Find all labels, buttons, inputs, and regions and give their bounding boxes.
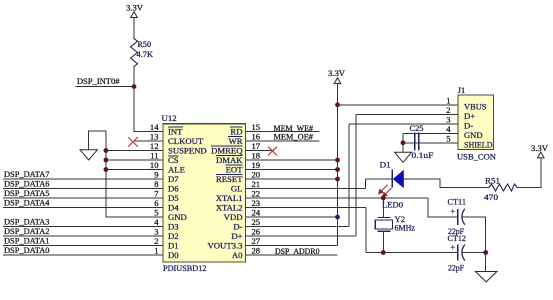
wire DSP_DATA7 <box>4 178 164 180</box>
svg-text:CLKOUT: CLKOUT <box>168 136 204 146</box>
svg-text:15: 15 <box>252 122 261 132</box>
junction pin 11 <box>104 158 109 163</box>
wire J1 D+ <box>356 113 458 115</box>
wire GND/SHIELD vertical <box>402 133 404 152</box>
svg-text:D3: D3 <box>168 222 179 232</box>
svg-text:D4: D4 <box>168 203 179 213</box>
svg-text:USB_CON: USB_CON <box>457 152 497 162</box>
wire 3.3V rail vertical <box>337 84 339 246</box>
svg-text:16: 16 <box>252 132 261 142</box>
junction DSP_INT0# node <box>132 84 137 89</box>
wire MEM_OE# (pin 16) <box>246 140 320 142</box>
pin 16 WR (right) <box>228 132 261 147</box>
wire pin 25 D- <box>246 226 350 228</box>
capacitor CT11 <box>448 197 467 237</box>
wire D- vertical <box>348 124 350 227</box>
pin 3 D- <box>446 115 473 131</box>
pin 9 D7 (left) <box>154 170 179 185</box>
svg-text:23: 23 <box>252 198 261 208</box>
pin 27 VOUT3.3 (right) <box>208 236 261 251</box>
svg-text:4: 4 <box>446 124 451 134</box>
svg-text:U12: U12 <box>162 113 177 123</box>
wire pin 28 A0 <box>246 254 338 256</box>
svg-text:D1: D1 <box>168 241 179 251</box>
svg-text:6MHz: 6MHz <box>395 223 416 233</box>
svg-text:4.7K: 4.7K <box>137 49 154 59</box>
svg-text:DSP_INT0#: DSP_INT0# <box>77 76 120 86</box>
pin 12 SUSPEND (left) <box>150 141 207 156</box>
wire DSP_DATA3 <box>4 226 164 228</box>
no-connect X on pin 17 <box>268 147 277 156</box>
power 3.3V (middle) <box>328 68 346 84</box>
svg-text:WR: WR <box>229 136 243 146</box>
pin 2 D+ <box>446 105 475 121</box>
pin 3 D2 (left) <box>154 227 178 242</box>
pin 2 D1 (left) <box>154 236 178 251</box>
pin 6 D4 (left) <box>154 198 179 213</box>
svg-text:25: 25 <box>252 217 261 227</box>
pin 22 XTAL1 (right) <box>216 189 260 204</box>
pin 5 GND (left) <box>154 208 187 223</box>
wire J1 D- <box>349 123 458 125</box>
wire DSP_DATA4 <box>4 207 164 209</box>
wire junction down to pin 14 <box>133 87 135 132</box>
pin 11 CS (left) <box>150 151 179 166</box>
junction pin 20 <box>335 177 340 182</box>
pin 21 GL (right) <box>231 179 260 194</box>
wire XTAL1 down to CT11 <box>428 198 458 217</box>
svg-text:DSP_DATA6: DSP_DATA6 <box>4 179 50 189</box>
LED D1 <box>379 160 404 197</box>
svg-text:RD: RD <box>230 127 242 137</box>
svg-text:3: 3 <box>154 227 158 237</box>
svg-text:D-: D- <box>233 222 242 232</box>
svg-text:11: 11 <box>150 151 158 161</box>
resistor R50 <box>131 39 154 67</box>
svg-text:C25: C25 <box>410 123 425 133</box>
wire MEM_WE# (pin 15) <box>246 131 320 133</box>
svg-text:1: 1 <box>446 96 450 106</box>
junction pin 10 <box>104 167 109 172</box>
svg-text:2: 2 <box>446 105 450 115</box>
wire pin 5 GND <box>106 216 163 218</box>
svg-text:10: 10 <box>150 160 159 170</box>
svg-text:PDIUSBD12: PDIUSBD12 <box>163 263 207 273</box>
svg-text:INT: INT <box>168 127 183 137</box>
capacitor C25 <box>410 123 434 160</box>
svg-text:6: 6 <box>154 198 159 208</box>
wire pin 26 D+ <box>246 235 357 237</box>
svg-text:D5: D5 <box>168 193 179 203</box>
wire pin 20 RESET to 3.3V rail <box>246 178 338 180</box>
wire D+ vertical <box>355 114 357 236</box>
wire R50 to junction <box>133 67 135 87</box>
pin 8 D6 (left) <box>154 179 179 194</box>
svg-text:17: 17 <box>252 141 261 151</box>
svg-text:+: + <box>451 207 456 216</box>
wire J1 GND <box>403 132 458 134</box>
svg-text:A0: A0 <box>232 250 243 260</box>
wire VBUS to J1 pin 1 <box>338 104 459 106</box>
pin 28 A0 (right) <box>232 246 260 261</box>
pin 18 DMAK (right) <box>216 151 260 166</box>
IC U12 PDIUSBD12 <box>162 113 246 273</box>
wire pin 18 DMAK to 3.3V rail <box>246 159 338 161</box>
svg-text:SUSPEND: SUSPEND <box>168 146 207 156</box>
junction VDD node <box>335 215 340 220</box>
svg-text:XTAL1: XTAL1 <box>216 193 243 203</box>
wire pin 24 VDD to rail <box>246 216 338 218</box>
wire pin 10 ALE <box>106 169 163 171</box>
svg-text:SHIELD: SHIELD <box>464 139 493 149</box>
pin 7 D5 (left) <box>154 189 178 204</box>
wire rail to pin 27 VOUT3.3 <box>246 245 338 247</box>
svg-text:4: 4 <box>154 217 159 227</box>
svg-text:CT11: CT11 <box>448 197 467 207</box>
wire pin 17 stub <box>246 150 275 152</box>
svg-text:8: 8 <box>154 179 158 189</box>
svg-text:ALE: ALE <box>168 165 185 175</box>
pin 26 D+ (right) <box>231 227 260 242</box>
svg-text:22: 22 <box>252 189 261 199</box>
pin 4 GND <box>446 124 482 140</box>
wire pin 19 EOT to 3.3V rail <box>246 169 338 171</box>
power 3.3V (right) <box>531 143 549 158</box>
pin 4 D3 (left) <box>154 217 178 232</box>
svg-text:D+: D+ <box>231 231 242 241</box>
svg-text:D0: D0 <box>168 250 179 260</box>
svg-text:3: 3 <box>446 115 450 125</box>
svg-text:12: 12 <box>150 141 159 151</box>
svg-text:DSP_DATA1: DSP_DATA1 <box>4 236 50 246</box>
svg-text:GND: GND <box>168 212 187 222</box>
svg-text:DSP_DATA7: DSP_DATA7 <box>4 169 50 179</box>
pin 19 EOT (right) <box>225 160 260 175</box>
svg-text:CT12: CT12 <box>448 233 467 243</box>
svg-text:DSP_DATA4: DSP_DATA4 <box>4 198 50 208</box>
junction XTAL1/crystal <box>381 196 386 201</box>
svg-text:D+: D+ <box>464 111 475 121</box>
ground (under C25) <box>395 152 412 162</box>
wire DSP_DATA1 <box>4 245 164 247</box>
pin 13 CLKOUT (left) <box>150 132 204 147</box>
pin 25 D- (right) <box>233 217 260 232</box>
svg-text:3.3V: 3.3V <box>531 143 549 153</box>
wire 3.3V to R50 <box>133 18 135 39</box>
wire DSP_INT0# <box>76 86 134 88</box>
svg-text:EOT: EOT <box>226 165 244 175</box>
no-connect X on pin 13 <box>129 138 138 147</box>
svg-text:J1: J1 <box>458 85 466 95</box>
svg-text:470: 470 <box>484 192 499 202</box>
svg-text:XTAL2: XTAL2 <box>216 203 243 213</box>
svg-text:R51: R51 <box>485 176 500 186</box>
svg-text:DMREQ: DMREQ <box>211 146 243 156</box>
wire CT11 to ground rail <box>462 217 486 253</box>
wire CT12 to ground node <box>462 252 486 254</box>
pin 1 D0 (left) <box>154 246 179 261</box>
svg-text:RESET: RESET <box>216 174 243 184</box>
svg-text:DSP_DATA3: DSP_DATA3 <box>4 217 50 227</box>
svg-text:5: 5 <box>154 208 158 218</box>
pin 24 VDD (right) <box>224 208 261 223</box>
power 3.3V (top left) <box>126 3 144 18</box>
wire pin 22 XTAL1 <box>246 197 429 199</box>
resistor R51 <box>484 176 517 203</box>
pin 1 VBUS <box>446 96 486 112</box>
wire LED anode lead <box>366 178 393 180</box>
svg-text:DMAK: DMAK <box>216 155 243 165</box>
wire LED cathode lead <box>403 179 489 188</box>
svg-text:19: 19 <box>252 160 261 170</box>
wire XTAL2 down <box>365 208 367 253</box>
pin 23 XTAL2 (right) <box>216 198 260 213</box>
svg-text:9: 9 <box>154 170 158 180</box>
wire GL vertical to LED <box>365 179 367 189</box>
svg-text:+: + <box>451 243 456 252</box>
svg-text:R50: R50 <box>138 39 152 49</box>
ground (bottom right) <box>475 272 497 282</box>
svg-text:D2: D2 <box>168 231 179 241</box>
svg-text:D7: D7 <box>168 174 179 184</box>
svg-text:20: 20 <box>252 170 261 180</box>
junction pin 19 <box>335 167 340 172</box>
wire ground hook top <box>89 130 106 132</box>
pin 14 INT (left) <box>150 122 183 137</box>
wire J1 SHIELD <box>403 142 458 144</box>
svg-text:24: 24 <box>252 208 261 218</box>
svg-text:DSP_DATA0: DSP_DATA0 <box>4 245 50 255</box>
wire pin 13 stub <box>135 140 163 142</box>
ground (left) <box>80 131 97 160</box>
wire R51 to 3.3V <box>517 158 541 188</box>
wire pin 21 GL <box>246 188 366 190</box>
svg-text:DSP_DATA2: DSP_DATA2 <box>4 226 50 236</box>
wire DSP_DATA5 <box>4 197 164 199</box>
connector J1 USB_CON <box>457 85 497 162</box>
wire pin 11 CS <box>106 159 163 161</box>
wire XTAL2 bottom rail <box>366 252 458 254</box>
wire pin 12 SUSPEND <box>106 150 163 152</box>
pin 20 RESET (right) <box>216 170 260 185</box>
svg-text:DSP_DATA5: DSP_DATA5 <box>4 188 50 198</box>
svg-text:3.3V: 3.3V <box>126 3 144 13</box>
crystal Y2 6MHz <box>375 214 415 233</box>
wire crystal bottom lead <box>382 231 384 252</box>
wire crystal top lead <box>382 198 384 217</box>
svg-text:7: 7 <box>154 189 159 199</box>
svg-text:VBUS: VBUS <box>464 101 487 111</box>
svg-text:MEM_OE#: MEM_OE# <box>274 132 314 142</box>
svg-text:22pF: 22pF <box>448 263 464 273</box>
svg-text:0.1uF: 0.1uF <box>412 150 434 160</box>
wire DSP_DATA0 <box>4 254 164 256</box>
svg-text:14: 14 <box>150 122 159 132</box>
wire DSP_DATA2 <box>4 235 164 237</box>
svg-text:D6: D6 <box>168 184 179 194</box>
svg-text:2: 2 <box>154 236 158 246</box>
wire down to ground <box>485 253 487 272</box>
junction GND/SHIELD <box>401 140 406 145</box>
wire into pin 14 <box>134 131 163 133</box>
svg-text:28: 28 <box>252 246 261 256</box>
svg-text:D-: D- <box>464 120 473 130</box>
junction pin 12 <box>104 148 109 153</box>
svg-text:18: 18 <box>252 151 261 161</box>
svg-text:DSP_ADDR0: DSP_ADDR0 <box>275 246 320 256</box>
svg-text:D1: D1 <box>380 160 391 170</box>
svg-text:13: 13 <box>150 132 159 142</box>
svg-text:VOUT3.3: VOUT3.3 <box>208 241 243 251</box>
svg-text:VDD: VDD <box>224 212 243 222</box>
svg-text:27: 27 <box>252 236 261 246</box>
svg-text:LED0: LED0 <box>382 200 404 210</box>
svg-text:CS: CS <box>168 155 179 165</box>
svg-text:GND: GND <box>464 130 483 140</box>
pin 15 RD (right) <box>230 122 260 137</box>
junction VBUS node <box>335 102 340 107</box>
junction pin 18 <box>335 158 340 163</box>
svg-text:21: 21 <box>252 179 261 189</box>
svg-text:1: 1 <box>154 246 158 256</box>
pin 5 SHIELD <box>446 134 492 150</box>
svg-text:GL: GL <box>231 184 243 194</box>
pin 10 ALE (left) <box>150 160 185 175</box>
capacitor CT12 <box>448 233 467 273</box>
svg-text:3.3V: 3.3V <box>328 68 346 78</box>
junction crystal bottom <box>381 250 386 255</box>
pin 17 DMREQ (right) <box>211 141 261 156</box>
svg-text:26: 26 <box>252 227 261 237</box>
wire DSP_DATA6 <box>4 188 164 190</box>
junction ground node <box>483 250 488 255</box>
wire pin 23 XTAL2 <box>246 207 366 209</box>
svg-text:5: 5 <box>446 134 450 144</box>
wire ground vertical bus <box>105 131 107 217</box>
